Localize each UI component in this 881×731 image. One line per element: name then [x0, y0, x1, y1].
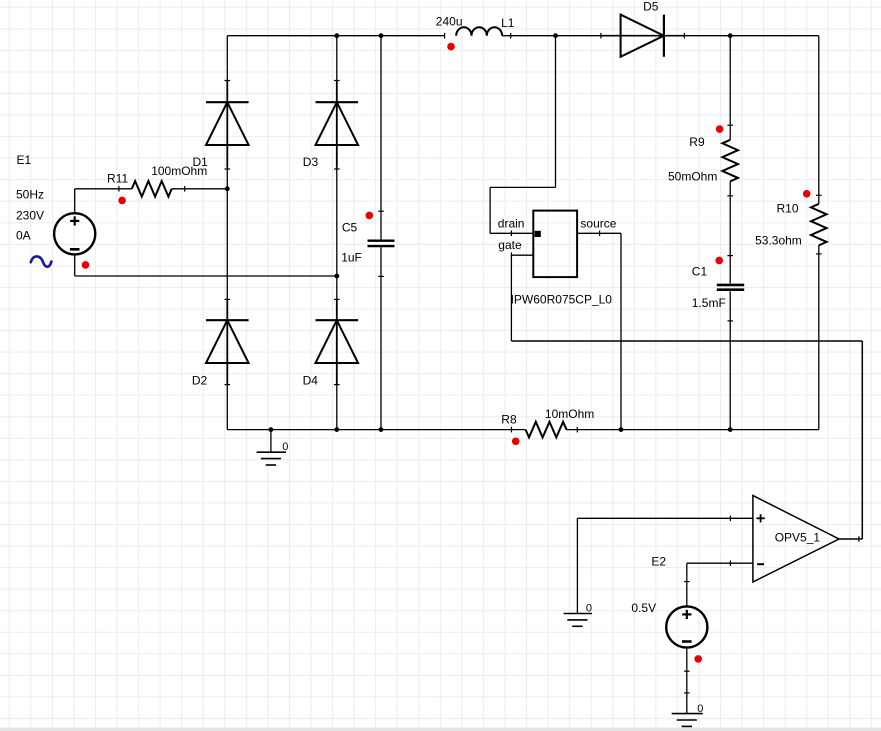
E2 pin ticks	[684, 581, 690, 583]
svg-text:L1: L1	[501, 16, 515, 30]
diode D5	[601, 15, 685, 57]
node drain tap	[553, 33, 558, 38]
D1 pin ticks	[225, 80, 231, 82]
capacitor C1	[717, 285, 744, 290]
node C1 bottom	[728, 427, 733, 432]
svg-text:E2: E2	[651, 554, 666, 568]
svg-text:50Hz: 50Hz	[16, 188, 44, 202]
D3 pin ticks	[334, 80, 340, 82]
wire into drain pin	[490, 232, 533, 234]
wire C5 column	[380, 36, 382, 240]
svg-text:R10: R10	[777, 201, 799, 215]
D4 pin ticks	[334, 298, 340, 300]
svg-text:D5: D5	[643, 0, 659, 14]
resistor R8	[526, 422, 567, 438]
svg-text:0: 0	[586, 602, 592, 614]
wire plus input down to ground	[576, 518, 578, 613]
svg-text:230V: 230V	[16, 208, 44, 222]
R9 pin ticks	[727, 124, 733, 126]
probe marker R10	[803, 190, 811, 198]
svg-text:drain: drain	[498, 217, 525, 231]
wire E2 bottom lead to ground	[686, 647, 688, 713]
node D4 bottom	[334, 427, 339, 432]
svg-text:R8: R8	[501, 413, 517, 427]
wire R9 to C1	[729, 181, 731, 283]
svg-text:D1: D1	[193, 155, 209, 169]
ground op-amp plus input (net 0)	[564, 614, 592, 627]
mosfet Q1 IPW60R075CP_L0	[511, 211, 577, 278]
wire bottom bus left of R8	[227, 429, 525, 431]
svg-text:C1: C1	[692, 265, 708, 279]
wire right bridge column (D3/D4)	[336, 36, 338, 430]
svg-text:IPW60R075CP_L0: IPW60R075CP_L0	[511, 293, 613, 307]
wire R10 bottom lead to bus	[818, 245, 820, 429]
wire feedback vertical to op-amp output	[861, 341, 863, 539]
svg-text:10mOhm: 10mOhm	[545, 407, 594, 421]
wire op-amp minus input	[687, 562, 753, 564]
node bridge right mid	[334, 274, 339, 279]
wire top rail left segment	[227, 35, 444, 37]
wire source pin to source column	[577, 232, 621, 234]
wire gate vertical down	[510, 255, 512, 341]
svg-text:D2: D2	[192, 374, 208, 388]
bottom window edge strip	[0, 728, 881, 731]
svg-text:E1: E1	[17, 153, 32, 167]
svg-text:53.3ohm: 53.3ohm	[755, 233, 802, 247]
resistor R11	[132, 181, 172, 197]
wire left bridge column (D1/D2)	[226, 36, 228, 430]
D2 pin ticks	[225, 298, 231, 300]
probe marker C1	[715, 257, 723, 265]
probe marker E1	[82, 261, 90, 269]
mosfet pin ticks	[510, 231, 512, 237]
svg-text:1.5mF: 1.5mF	[692, 296, 726, 310]
diode D3	[316, 81, 359, 168]
svg-text:D3: D3	[303, 155, 319, 169]
resistor R9	[722, 140, 738, 182]
wire E1 vertical bottom	[74, 254, 76, 276]
node source bottom	[619, 427, 624, 432]
wire drain tap vertical from top rail	[555, 36, 557, 188]
svg-text:240u: 240u	[436, 15, 463, 29]
wire op-amp plus input	[577, 517, 753, 519]
R10 pin ticks	[816, 194, 822, 196]
wire E1 vertical top	[74, 189, 76, 214]
wire drain tap horizontal	[490, 186, 555, 188]
probe marker C5	[366, 212, 374, 220]
resistor R10	[811, 204, 827, 246]
op-amp input pin ticks	[729, 516, 731, 522]
ground E2 (net 0)	[672, 714, 703, 727]
node C5 top	[379, 33, 384, 38]
svg-text:R11: R11	[107, 172, 128, 186]
svg-text:OPV5_1: OPV5_1	[775, 531, 821, 545]
node R9 top	[728, 33, 733, 38]
node D3 top	[334, 33, 339, 38]
L1 pin ticks	[444, 33, 446, 39]
wire op-amp output	[839, 538, 862, 540]
wire bottom bus right of R8	[567, 429, 819, 431]
probe marker R11	[118, 197, 126, 205]
node C5 bottom	[379, 427, 384, 432]
probe marker L1	[447, 43, 455, 51]
wire drain drop vertical	[489, 187, 491, 233]
wire top rail right of D5	[664, 35, 819, 37]
svg-text:0.5V: 0.5V	[631, 601, 656, 615]
node ground tap	[269, 427, 274, 432]
wire E2 top lead	[686, 563, 688, 607]
inductor L1	[456, 27, 502, 35]
wire R9 top lead	[729, 36, 731, 140]
probe marker R9	[716, 125, 724, 133]
wire C1 bottom lead to bus	[729, 291, 731, 429]
wire R10 top lead	[818, 36, 820, 204]
svg-text:0A: 0A	[16, 229, 31, 243]
R11 pin ticks	[118, 186, 120, 192]
E1 ac sine symbol	[31, 256, 52, 266]
svg-text:50mOhm: 50mOhm	[668, 170, 717, 184]
svg-text:0: 0	[282, 441, 288, 453]
svg-text:gate: gate	[498, 238, 522, 252]
svg-text:C5: C5	[342, 221, 358, 235]
diode D1	[206, 81, 249, 168]
probe marker R8	[512, 438, 520, 446]
voltage source E2	[666, 606, 707, 647]
probe marker E2	[694, 655, 702, 663]
diode D4	[316, 299, 359, 386]
node bridge left mid	[225, 186, 230, 191]
svg-text:1uF: 1uF	[341, 250, 362, 264]
voltage source E1	[54, 213, 95, 254]
C5 pin ticks	[378, 210, 384, 212]
diode D2	[206, 299, 249, 386]
C1 pin ticks	[727, 255, 733, 257]
wire top rail between L1 and D5	[502, 35, 621, 37]
wire gate feedback row	[511, 340, 862, 342]
capacitor C5	[368, 241, 395, 246]
svg-text:D4: D4	[303, 374, 319, 388]
wire E1 top lead to R11	[75, 188, 132, 190]
wire E1 bottom row to D3/D4 node	[75, 275, 337, 277]
wire R11 to bridge node	[172, 188, 228, 190]
wire bridge ground stub	[270, 430, 272, 453]
svg-text:source: source	[580, 217, 616, 231]
svg-text:R9: R9	[689, 135, 705, 149]
svg-text:0: 0	[697, 703, 703, 715]
ground bridge (net 0)	[257, 452, 286, 465]
wire source column down to bus	[620, 233, 622, 429]
D5 pin ticks	[600, 33, 602, 39]
op-amp U1 OPV5_1	[753, 496, 839, 583]
R8 pin ticks	[511, 427, 513, 433]
